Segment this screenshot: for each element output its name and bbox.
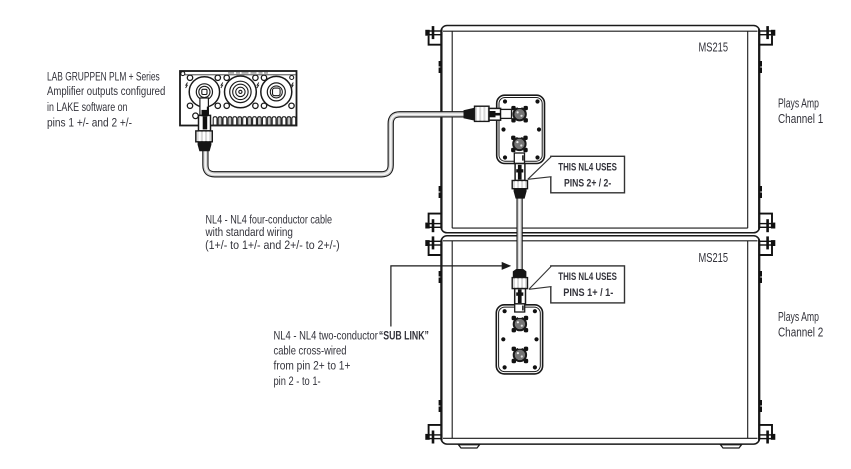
bracket top-right (top cabinet) (759, 26, 775, 45)
cabinet foot left (459, 445, 480, 448)
panel screws row (187, 75, 294, 108)
cabinet foot right (721, 445, 742, 448)
svg-text:PINS 1+ / 1-: PINS 1+ / 1- (563, 287, 613, 299)
svg-text:(1+/- to 1+/- and 2+/- to 2+/-: (1+/- to 1+/- and 2+/- to 2+/-) (205, 238, 340, 252)
speakon connector 3 (amp) (261, 76, 292, 107)
svg-text:PINS 2+ / 2-: PINS 2+ / 2- (564, 177, 611, 189)
corner screw top-left (181, 72, 185, 76)
label: LAB GRUPPEN text block (47, 70, 165, 130)
plate socket A (top plate upper) (511, 106, 528, 123)
side studs top cabinet right (759, 61, 762, 198)
panel label smudge (228, 72, 268, 74)
svg-text:MS215: MS215 (699, 250, 729, 265)
side studs bottom cabinet right (759, 271, 762, 412)
NL4 plug at amp (vertical) (196, 98, 213, 151)
svg-text:from pin 2+ to 1+: from pin 2+ to 1+ (274, 359, 351, 373)
svg-text:cable cross-wired: cable cross-wired (274, 343, 347, 357)
bracket bottom-left (bottom cabinet) (425, 425, 441, 444)
NL4 cable amp to top plate (205, 114, 466, 174)
NL4 four-conductor text block (205, 213, 340, 253)
lightning bolt marks (186, 83, 294, 89)
NL4 plug below top plate (vertical) (512, 153, 527, 199)
svg-text:THIS NL4 USES: THIS NL4 USES (558, 161, 617, 173)
svg-text:LAB GRUPPEN PLM + Series: LAB GRUPPEN PLM + Series (47, 70, 160, 84)
SUB LINK text block (274, 328, 429, 388)
top cabinet MS215 (441, 26, 760, 233)
bottom cabinet MS215 (441, 236, 760, 444)
svg-text:MS215: MS215 (699, 40, 729, 55)
amplifier rear panel (180, 71, 297, 126)
corner screw top-right (290, 76, 294, 80)
bracket top-right (bottom cabinet) (759, 236, 775, 255)
top connector plate (497, 95, 545, 163)
callout box 2: THIS NL4 USES PINS 1+/1- (529, 266, 625, 303)
svg-text:Channel 2: Channel 2 (778, 324, 823, 339)
Plays Amp Channel 2 label (778, 309, 823, 340)
bracket top-left (top cabinet) (425, 26, 441, 45)
NL4 plug into bottom plate (vertical) (512, 269, 527, 312)
side studs top cabinet left (439, 61, 442, 198)
svg-text:Plays Amp: Plays Amp (778, 95, 819, 110)
svg-text:NL4 - NL4 two-conductor: NL4 - NL4 two-conductor (274, 328, 378, 342)
svg-text:“SUB LINK”: “SUB LINK” (379, 328, 429, 342)
sub-link cable between plates (516, 196, 522, 270)
svg-text:pin 2 - to 1-: pin 2 - to 1- (274, 374, 321, 388)
svg-text:with standard wiring: with standard wiring (205, 225, 293, 239)
sub-link leader line with arrow (391, 262, 511, 327)
Plays Amp Channel 1 label (778, 95, 823, 126)
svg-text:THIS NL4 USES: THIS NL4 USES (558, 271, 617, 283)
speakon connector 1 (amp) (189, 77, 219, 107)
ventilation slots (212, 117, 296, 126)
plate socket B (top plate lower) (511, 136, 528, 153)
bracket top-left (bottom cabinet) (425, 236, 441, 255)
callout box 1: THIS NL4 USES PINS 2+/2- (528, 156, 625, 193)
svg-text:Plays Amp: Plays Amp (778, 309, 819, 324)
bracket bottom-right (top cabinet) (759, 214, 775, 233)
plate socket D (bottom plate lower) (512, 347, 529, 364)
speakon connector 2 (amp) (225, 76, 257, 108)
svg-text:Channel 1: Channel 1 (778, 111, 823, 126)
plate socket C (bottom plate upper) (512, 316, 529, 333)
NL4 plug into top plate (horizontal) (464, 106, 512, 121)
panel screw bottom-left (behind plug) (193, 113, 199, 119)
svg-text:Amplifier outputs configured: Amplifier outputs configured (47, 84, 165, 98)
bottom connector plate (496, 305, 542, 374)
bracket bottom-left (top cabinet) (425, 214, 441, 233)
side studs bottom cabinet left (439, 271, 442, 412)
svg-text:pins 1 +/- and 2 +/-: pins 1 +/- and 2 +/- (47, 116, 132, 130)
svg-text:in LAKE software on: in LAKE software on (47, 100, 128, 114)
bracket bottom-right (bottom cabinet) (759, 425, 775, 444)
